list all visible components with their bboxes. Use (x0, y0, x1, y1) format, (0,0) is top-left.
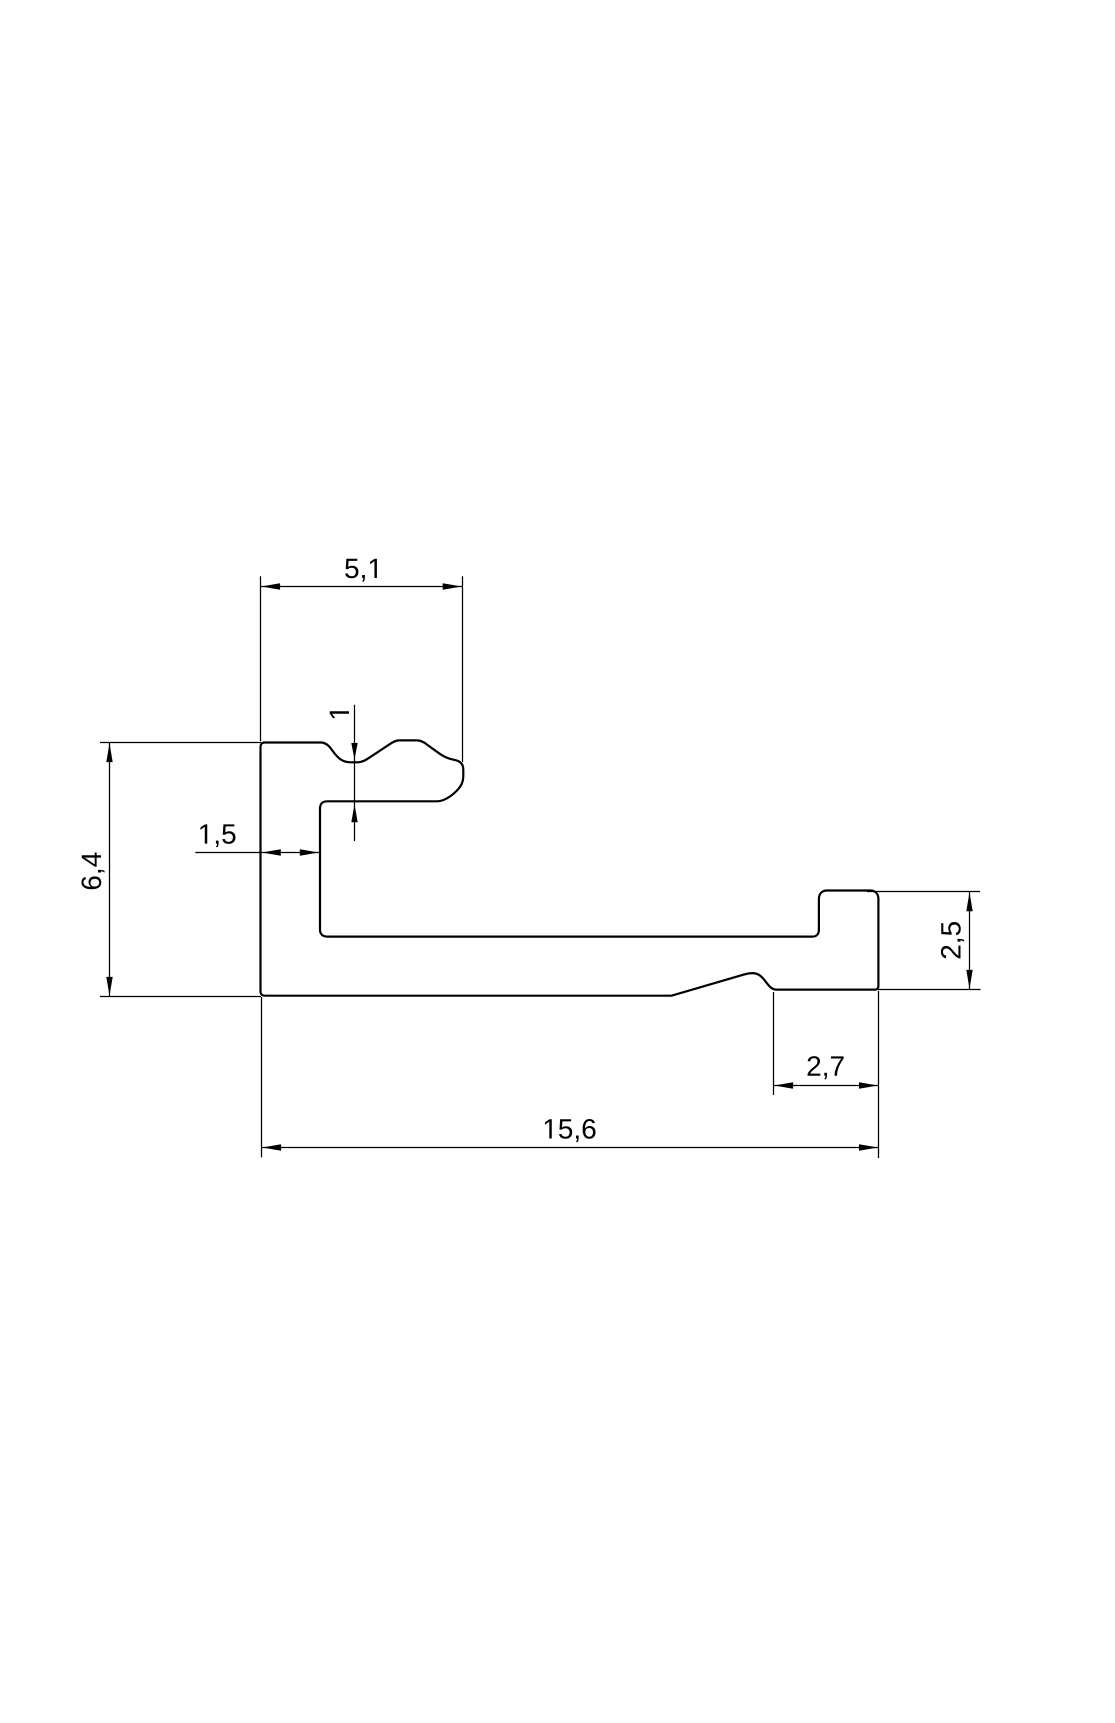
dimension 1 label (rotated) (330, 711, 349, 718)
dimension 2,5 label (rotated) (941, 922, 964, 958)
dimension 6,4 arrow bottom (106, 977, 112, 996)
dimension 2,7 arrow right (859, 1082, 878, 1088)
dimension 15,6 arrow right (859, 1144, 878, 1150)
dimension 2,7 line (774, 1085, 879, 1087)
dimension 5,1 arrow right (443, 583, 462, 589)
dimension 1,5 arrow left (262, 849, 281, 855)
shared right extension line (2,7 and 15,6) (878, 991, 880, 1158)
dimension 2,5 extension line top (867, 891, 980, 893)
dimension 15,6 label (545, 1119, 596, 1142)
dimension 15,6 line (262, 1147, 879, 1149)
dimension 5,1 extension line right (462, 576, 464, 762)
dimension 5,1 line (261, 586, 463, 588)
dimension 15,6 extension line left (261, 997, 263, 1157)
dimension 1 arrow upper (points down to trough) (351, 743, 357, 760)
dimension 2,5 line (969, 892, 971, 990)
dimension 5,1 extension line left (260, 576, 262, 741)
dimension 2,5 arrow bottom (966, 970, 972, 989)
dimension 6,4 label (rotated) (81, 853, 104, 890)
dimension 15,6 arrow left (262, 1144, 281, 1150)
dimension 2,7 arrow left (774, 1082, 793, 1088)
dimension 2,7 label (808, 1056, 844, 1079)
dimension 6,4 line (109, 743, 111, 997)
dimension 5,1 arrow left (261, 583, 280, 589)
dimension 6,4 arrow top (106, 743, 112, 762)
dimension 6,4 extension line bottom (100, 996, 261, 998)
dimension 2,5 extension line bottom (877, 989, 981, 991)
dimension 1,5 label (200, 824, 235, 847)
dimension 1 line (vertical through trough) (354, 705, 356, 841)
dimension 6,4 extension line top (100, 742, 261, 744)
dimension 2,7 extension line left (773, 992, 775, 1095)
profile outline (aluminium extrusion cross-section) (261, 740, 879, 995)
dimension 2,5 arrow top (966, 892, 972, 911)
dimension 1 arrow lower (points up to lip underside) (351, 804, 357, 822)
dimension 1,5 arrow right (300, 849, 319, 855)
dimension 5,1 label (345, 559, 377, 582)
dimension 1,5 line (195, 852, 320, 854)
